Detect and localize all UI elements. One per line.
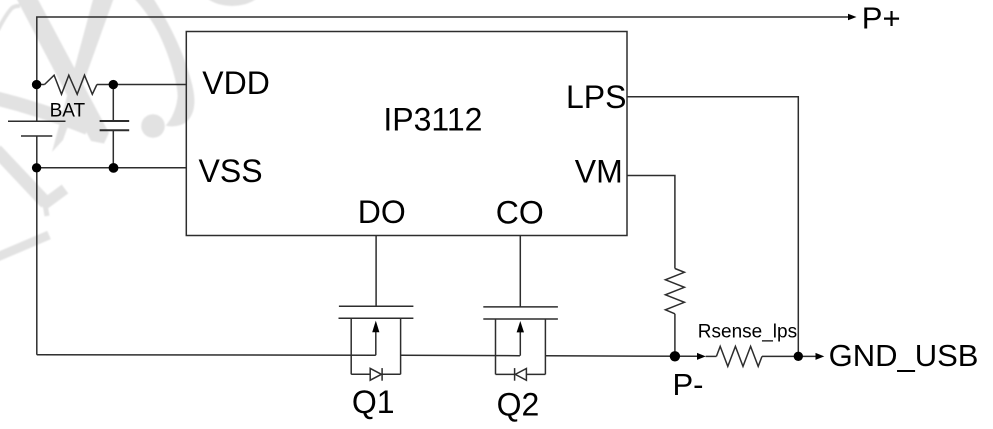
svg-text:GND_USB: GND_USB bbox=[829, 338, 979, 373]
svg-text:VM: VM bbox=[575, 154, 623, 190]
svg-text:P+: P+ bbox=[862, 1, 901, 36]
svg-text:Q2: Q2 bbox=[497, 387, 540, 423]
svg-text:CO: CO bbox=[496, 195, 544, 231]
svg-text:P-: P- bbox=[673, 367, 704, 402]
svg-text:DO: DO bbox=[358, 194, 406, 230]
svg-text:BAT: BAT bbox=[50, 101, 86, 122]
svg-text:LPS: LPS bbox=[566, 79, 626, 115]
svg-text:Q1: Q1 bbox=[352, 384, 395, 420]
svg-text:Rsense_lps: Rsense_lps bbox=[698, 321, 797, 342]
svg-text:VSS: VSS bbox=[199, 153, 263, 189]
svg-text:VDD: VDD bbox=[202, 65, 270, 101]
svg-text:IP3112: IP3112 bbox=[383, 101, 482, 137]
